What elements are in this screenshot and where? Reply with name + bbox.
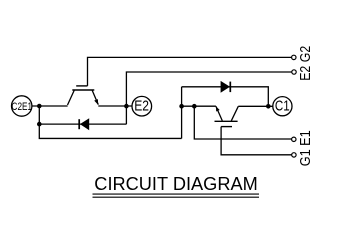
wire diode D1 row: [182, 87, 269, 107]
node junction diode row left: [37, 122, 42, 127]
svg-text:E2 G2: E2 G2: [297, 46, 314, 81]
terminal C1: [273, 97, 292, 116]
transistor Q2: [68, 86, 99, 105]
svg-text:C1: C1: [275, 98, 290, 115]
title underline double: [93, 194, 260, 197]
wire right section vertical C2E1 node: [181, 87, 183, 139]
wire diode D2 row: [39, 123, 126, 125]
wire Q1 emitter rail: [182, 105, 216, 107]
wire gate G2: [88, 57, 292, 86]
terminal C2E1: [12, 96, 32, 116]
wire gate G1: [221, 127, 292, 155]
terminal G2: [292, 55, 296, 59]
wire Q2 emitter to node E2: [98, 105, 132, 107]
node junction right rail 2: [192, 104, 197, 109]
node junction at C2E1: [37, 104, 42, 109]
diode D1: [221, 81, 231, 93]
diode D2: [79, 118, 89, 130]
svg-text:C2E1: C2E1: [12, 101, 33, 113]
terminal E2 mid circle: [132, 96, 152, 116]
svg-text:E2: E2: [134, 98, 149, 115]
wire C2E1 down to bottom rail across to right section: [39, 106, 181, 138]
svg-text:G1 E1: G1 E1: [297, 130, 314, 166]
node junction right rail 1: [179, 104, 184, 109]
terminal G1: [292, 153, 296, 157]
node junction C1 rail: [266, 104, 271, 109]
wire E1 sense: [194, 106, 291, 139]
transistor Q1: [215, 106, 239, 126]
svg-text:CIRCUIT DIAGRAM: CIRCUIT DIAGRAM: [94, 174, 257, 194]
terminal E1: [292, 137, 296, 141]
wire Q1 collector to C1: [238, 105, 272, 107]
wire E2 branch up to E2 terminal: [126, 72, 291, 124]
node junction E2: [124, 104, 129, 109]
terminal E2 top: [292, 70, 296, 74]
wire C2E1 to Q2 collector: [32, 105, 67, 107]
